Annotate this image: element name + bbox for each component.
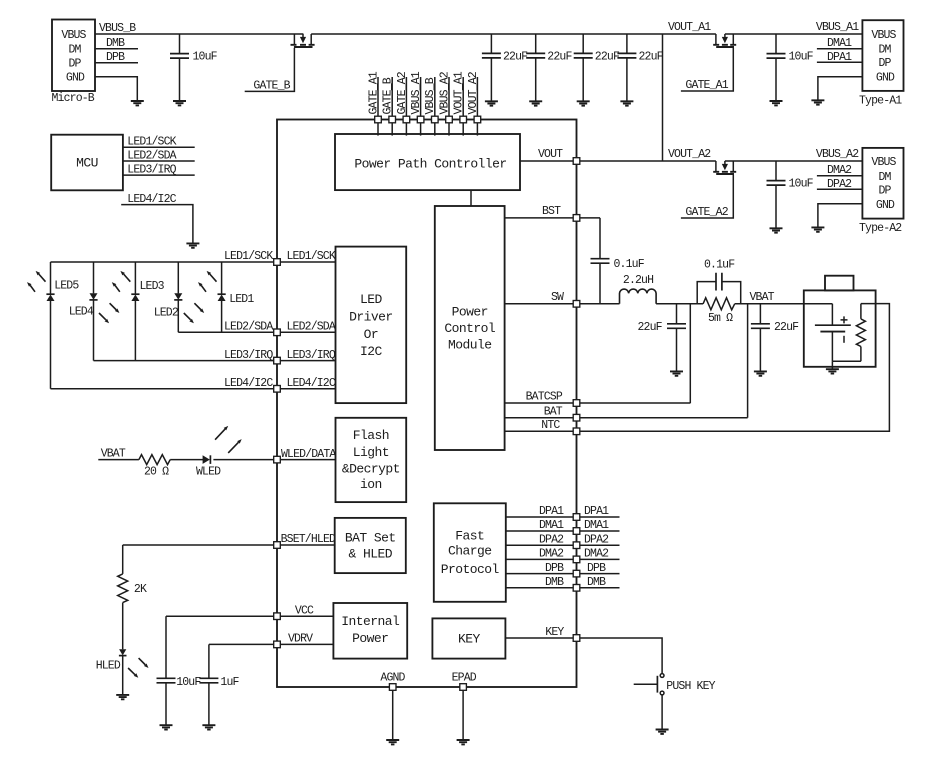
svg-text:VCC: VCC [295,604,314,617]
svg-text:DMA2: DMA2 [584,548,609,561]
svg-text:DPA1: DPA1 [584,505,609,518]
svg-text:VBUS_A2: VBUS_A2 [816,148,859,161]
svg-text:DP: DP [878,57,891,70]
battery pack box [804,276,876,367]
wire VOUT_A2 row [577,160,716,162]
ground [116,695,129,699]
LED WLED [196,455,221,478]
svg-text:LED2: LED2 [154,307,179,320]
pin LED2/SDA [274,329,281,336]
svg-text:DM: DM [68,44,81,57]
wire DPA2 [506,544,620,546]
svg-text:0.1uF: 0.1uF [704,258,735,271]
svg-text:GND: GND [876,199,895,212]
svg-text:LED5: LED5 [54,280,79,293]
svg-text:DMA1: DMA1 [827,37,852,50]
svg-text:VBAT: VBAT [750,291,775,304]
wire DPA2 [817,188,863,190]
pin DPB [573,570,580,577]
pin DPA1 [573,514,580,521]
IC U1 boundary [277,120,577,688]
capacitor 10uF (A1) [767,34,814,101]
wire VOUT riser (node VOUT) [662,34,664,161]
LED2 emission arrows [184,303,204,323]
svg-text:LED3: LED3 [140,280,165,293]
svg-text:BSET/HLED: BSET/HLED [281,533,336,546]
wire MCU LED3/IRQ [123,174,195,176]
svg-text:DM: DM [878,44,891,57]
wire VBUS_A2 [725,160,863,162]
svg-text:Module: Module [448,338,492,353]
wire Micro-B GND [95,77,137,101]
svg-text:DPA2: DPA2 [539,533,564,546]
LED D3 [131,262,139,361]
svg-text:LED3/IRQ: LED3/IRQ [224,349,273,362]
battery cell BT1 [815,304,851,362]
pin DMA2 [573,556,580,563]
svg-text:Driver: Driver [349,310,393,325]
svg-text:SW: SW [551,291,564,304]
pin DMB [573,585,580,592]
svg-text:10uF: 10uF [789,177,814,190]
ground [811,100,824,104]
svg-text:VBUS_A2: VBUS_A2 [438,71,451,114]
svg-text:VOUT: VOUT [538,148,563,161]
svg-text:Light: Light [353,445,389,460]
LED4 emission arrows [99,303,119,323]
capacitor 22uF #2 [526,34,572,101]
svg-text:WLED: WLED [196,465,221,478]
pin BAT [573,414,580,421]
wire MCU LED1/SCK [123,146,195,148]
svg-text:VOUT_A1: VOUT_A1 [453,71,466,114]
minus sign [843,336,845,343]
wire LED2/SDA [178,331,335,333]
wire GATE_B [245,48,295,91]
wire DPA1 [506,516,620,518]
svg-text:VBUS_A1: VBUS_A1 [410,71,423,114]
svg-text:DP: DP [878,184,891,197]
svg-text:GATE_A1: GATE_A1 [367,71,380,114]
wire BSET/HLED [123,544,336,546]
svg-text:Type-A2: Type-A2 [859,222,902,235]
LED HLED [96,649,127,672]
pin VBUS_A2 (top) [438,71,452,135]
plus sign [841,316,848,323]
svg-text:I2C: I2C [360,344,383,359]
capacitor 1uF (VDRV) [199,676,239,725]
wire BAT [505,417,748,419]
capacitor 22uF (SW LC) [638,304,687,372]
svg-text:2K: 2K [134,583,147,596]
svg-text:GATE_B: GATE_B [382,77,395,114]
LED D4 [89,262,97,361]
capacitor 22uF #1 [482,34,528,101]
svg-text:LED2/SDA: LED2/SDA [127,149,176,162]
svg-text:VBUS: VBUS [871,29,896,42]
svg-text:KEY: KEY [458,632,481,647]
svg-text:EPAD: EPAD [452,672,477,685]
svg-text:VBUS_A1: VBUS_A1 [816,21,859,34]
wire GATE_A2 [681,175,733,218]
pin VOUT_A1 (top) [453,71,467,135]
ground [386,740,399,744]
wire HLED to ground [122,656,124,695]
wire DPA1 [817,61,863,63]
ground [202,725,215,729]
transistor Q1 PMOS (GATE_B) [291,34,315,47]
svg-text:VOUT_A1: VOUT_A1 [668,21,711,34]
svg-text:LED1/SCK: LED1/SCK [287,250,336,263]
wire GATE_A1 [681,48,733,91]
svg-text:10uF: 10uF [193,50,218,63]
wire cell bottom [832,361,861,369]
inductor L1 2.2uH [620,274,657,304]
pin VOUT_A2 (top) [467,71,481,135]
svg-text:Or: Or [364,327,379,342]
svg-text:BATCSP: BATCSP [526,391,563,404]
ground [131,101,144,105]
wire VBUS_B continued [311,33,716,35]
wire VBUS_B [95,33,303,35]
block Power Control Module [435,206,505,450]
svg-text:10uF: 10uF [789,50,814,63]
capacitor 0.1uF (BST) [591,218,645,304]
svg-text:KEY: KEY [545,626,564,639]
svg-text:22uF: 22uF [503,50,528,63]
block Flash Light &Decryption [336,418,407,502]
pin DPA2 [573,542,580,549]
svg-text:VBUS_B: VBUS_B [424,77,437,114]
transistor Q2 PMOS (GATE_A1) [713,34,736,47]
ground [754,371,767,375]
svg-text:LED2/SDA: LED2/SDA [287,321,336,334]
pin DMA1 [573,528,580,535]
ground [670,371,683,375]
svg-text:GATE_A1: GATE_A1 [685,79,728,92]
LED1 emission arrows [198,271,217,292]
wire BSET riser [122,545,124,574]
wire KEY [505,638,662,674]
svg-text:DP: DP [68,58,81,71]
ground [826,369,839,373]
WLED emission arrows [215,426,242,453]
svg-text:NTC: NTC [541,419,560,432]
wire LED3/IRQ [94,360,336,362]
pin LED1/SCK [274,259,281,266]
capacitor 0.1uF (parallel 5mOhm) [697,258,741,304]
svg-text:Fast: Fast [455,529,484,544]
HLED emission arrows [128,658,148,678]
wire push button to ground [661,695,663,730]
ground [770,228,783,232]
svg-text:Power Path Controller: Power Path Controller [354,156,506,171]
svg-text:VBUS: VBUS [871,156,896,169]
wire Type-A1 GND [818,77,863,101]
wire VDRV [209,643,334,645]
resistor R3 2K [118,574,147,603]
thermistor RT1 [856,304,865,362]
wire VCC riser [165,616,167,678]
LED D1 [218,262,226,332]
svg-text:Protocol: Protocol [441,562,500,577]
wire SW node [656,303,703,305]
connector Type-A1 [859,20,904,107]
connector Micro-B [52,20,96,106]
wire BATCSP [505,402,691,404]
pin VCC [274,613,281,620]
wire VBAT to resistor [98,459,139,461]
wire NTC [505,304,890,432]
svg-text:VDRV: VDRV [288,633,313,646]
ground [457,740,470,744]
svg-text:VBUS: VBUS [61,29,86,42]
wire MCU LED2/SDA [123,160,195,162]
wire VDRV riser [208,644,210,678]
ground [811,227,824,231]
svg-text:DPB: DPB [106,51,125,64]
pin VBUS_B (top) [424,77,438,136]
svg-text:AGND: AGND [380,672,405,685]
ground [186,243,199,247]
svg-text:& HLED: & HLED [349,546,393,561]
MCU U2 [51,135,123,191]
svg-text:10uF: 10uF [176,676,201,689]
svg-text:LED3/IRQ: LED3/IRQ [287,349,336,362]
svg-text:20 Ω: 20 Ω [144,465,169,478]
wire Type-A2 GND [818,204,863,228]
wire DMB [95,48,138,50]
svg-text:5m Ω: 5m Ω [708,312,733,325]
svg-text:BAT: BAT [544,406,563,419]
capacitor 10uF (A2) [767,161,814,228]
block Internal Power [333,603,407,659]
capacitor 22uF #4 [617,34,663,101]
wire EPAD [462,690,464,740]
pin VDRV [274,641,281,648]
LED3 emission arrows [112,271,131,292]
svg-text:0.1uF: 0.1uF [614,258,645,271]
wire VBUS_A1 [725,33,863,35]
pin EPAD [460,684,467,691]
ground [173,101,186,105]
LED5 emission arrows [27,271,46,292]
svg-text:VOUT_A2: VOUT_A2 [668,148,711,161]
ground [529,101,542,105]
LED D5 [46,262,54,389]
block Power Path Controller [335,134,520,190]
capacitor 10uF (VCC) [157,676,202,725]
svg-text:GND: GND [66,72,85,85]
ground [485,101,498,105]
svg-text:Power: Power [352,631,388,646]
wire BST [505,217,600,219]
wire 2K to HLED [122,603,124,650]
svg-text:DPB: DPB [545,562,564,575]
block KEY [432,618,505,658]
svg-text:Micro-B: Micro-B [52,92,95,105]
svg-text:LED1/SCK: LED1/SCK [127,136,176,149]
wire DPB [95,62,138,64]
svg-text:22uF: 22uF [547,50,572,63]
ground [160,725,173,729]
capacitor 22uF #3 [574,34,620,101]
svg-text:Internal: Internal [341,614,400,629]
svg-text:WLED/DATA: WLED/DATA [281,448,336,461]
wire DMB [506,587,620,589]
ground [577,101,590,105]
svg-text:LED1/SCK: LED1/SCK [224,250,273,263]
svg-text:GND: GND [876,72,895,85]
resistor R2 20 Ohm [139,455,170,479]
svg-text:VOUT_A2: VOUT_A2 [467,71,480,114]
svg-text:Charge: Charge [448,544,492,559]
svg-text:GATE_B: GATE_B [253,79,290,92]
wire SW [505,303,620,305]
svg-text:BST: BST [542,205,561,218]
wire BAT riser [747,304,749,418]
ground [620,101,633,105]
pin BST [573,215,580,222]
wire LED4/I2C [51,388,336,390]
pin VBUS_A1 (top) [410,71,424,135]
LED D2 [174,262,182,332]
svg-text:VBAT: VBAT [101,448,126,461]
wire LED1/SCK [51,261,336,263]
block Fast Charge Protocol [434,503,506,602]
svg-text:Control: Control [444,321,496,336]
pin AGND [389,684,396,691]
svg-text:LED2/SDA: LED2/SDA [224,321,273,334]
wire PPC to PCM [470,190,472,206]
wire resistor to diode [170,459,203,461]
pin KEY [573,635,580,642]
svg-text:22uF: 22uF [774,321,799,334]
svg-text:1uF: 1uF [220,676,239,689]
block LED Driver Or I2C [336,247,407,404]
svg-text:LED4/I2C: LED4/I2C [224,377,273,390]
svg-text:MCU: MCU [76,156,98,171]
wire BATCSP riser [689,304,691,403]
pin GATE_A2 (top) [396,71,410,135]
pin GATE_B (top) [382,77,396,136]
transistor Q3 PMOS (GATE_A2) [713,161,736,174]
pin BATCSP [573,400,580,407]
svg-text:DM: DM [878,171,891,184]
svg-text:DPA1: DPA1 [539,505,564,518]
svg-text:LED4/I2C: LED4/I2C [287,377,336,390]
svg-text:DPA2: DPA2 [827,178,852,191]
svg-text:DMB: DMB [106,37,125,50]
wire AGND [392,690,394,740]
wire DMA2 [817,175,863,177]
pin BSET/HLED [274,542,281,549]
svg-text:2.2uH: 2.2uH [623,274,653,287]
svg-text:ion: ion [360,477,382,492]
svg-text:DPB: DPB [587,562,606,575]
pin NTC [573,428,580,435]
pin SW [573,301,580,308]
wire DMA1 [506,530,620,532]
wire WLED/DATA [213,459,335,461]
wire DMA2 [506,558,620,560]
svg-text:DMA1: DMA1 [539,519,564,532]
svg-text:LED1: LED1 [229,293,254,306]
connector Type-A2 [859,148,904,235]
svg-text:DMA1: DMA1 [584,519,609,532]
wire MCU LED4/I2C [121,205,193,244]
svg-text:22uF: 22uF [639,50,664,63]
svg-text:DMA2: DMA2 [827,164,852,177]
svg-text:LED3/IRQ: LED3/IRQ [127,164,176,177]
wire VBAT [735,303,833,305]
push button SW1 [634,674,716,695]
pin LED4/I2C [274,386,281,393]
pin GATE_A1 (top) [367,71,381,135]
svg-text:DPA1: DPA1 [827,51,852,64]
capacitor 22uF (VBAT) [751,304,799,372]
wire VCC [166,615,333,617]
pin LED3/IRQ [274,357,281,364]
svg-text:DPA2: DPA2 [584,533,609,546]
pin WLED/DATA [274,456,281,463]
capacitor 10uF (VBUS_B) [170,34,218,101]
svg-text:HLED: HLED [96,659,121,672]
wire VOUT [520,160,577,162]
svg-text:Type-A1: Type-A1 [859,94,902,107]
svg-text:Flash: Flash [353,428,389,443]
svg-text:22uF: 22uF [595,50,620,63]
wire DMA1 [817,48,863,50]
svg-text:DMA2: DMA2 [539,548,564,561]
svg-text:BAT Set: BAT Set [345,531,396,546]
svg-text:GATE_A2: GATE_A2 [396,71,409,114]
pin VOUT [573,158,580,165]
svg-text:VBUS_B: VBUS_B [99,22,136,35]
svg-text:DMB: DMB [545,576,564,589]
svg-text:DMB: DMB [587,576,606,589]
ground [656,730,669,734]
resistor R1 5mOhm [703,298,735,325]
svg-text:Power: Power [452,305,488,320]
block BAT Set & HLED [335,518,406,573]
svg-text:LED4: LED4 [69,306,94,319]
svg-text:&Decrypt: &Decrypt [342,461,400,476]
svg-text:22uF: 22uF [638,321,663,334]
svg-text:LED: LED [360,292,383,307]
svg-text:GATE_A2: GATE_A2 [685,206,728,219]
wire DPB [506,573,620,575]
svg-text:PUSH KEY: PUSH KEY [666,680,715,693]
ground [770,101,783,105]
